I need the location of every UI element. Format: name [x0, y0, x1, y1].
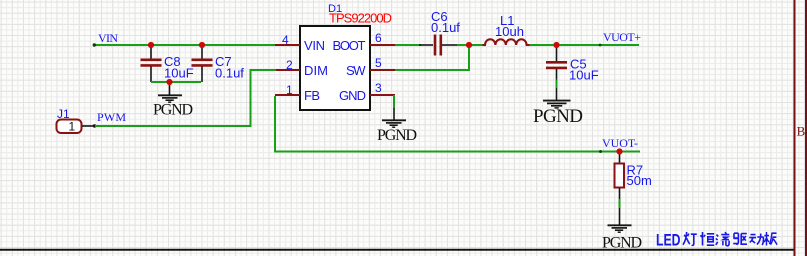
svg-text:10uF: 10uF — [164, 66, 194, 81]
anchor dot VUOT- label — [599, 150, 602, 153]
svg-text:50m: 50m — [627, 173, 652, 188]
wire pin3 GND stub — [393, 95, 395, 109]
pin 2 DIM — [275, 69, 300, 71]
anchor dot PWM pin end — [93, 124, 96, 127]
svg-text:VUOT-: VUOT- — [602, 136, 638, 150]
sheet border right inner — [794, 0, 796, 256]
svg-text:0.1uf: 0.1uf — [431, 20, 460, 35]
svg-text:2: 2 — [286, 58, 293, 72]
svg-text:B: B — [797, 123, 806, 138]
wire C6 to junction — [457, 44, 470, 46]
svg-text:LED: LED — [656, 232, 681, 250]
svg-text:VIN: VIN — [98, 31, 118, 45]
svg-text:6: 6 — [375, 31, 382, 45]
svg-text:GND: GND — [339, 88, 366, 103]
wire VIN net horizontal — [93, 44, 276, 46]
svg-text:5: 5 — [375, 56, 382, 70]
junction at caps ground stub — [166, 79, 172, 85]
sheet border bottom — [0, 249, 794, 251]
svg-text:1: 1 — [69, 120, 76, 134]
junction at R7 top — [616, 148, 622, 154]
svg-text:PWM: PWM — [97, 110, 126, 124]
op IC D1 body — [300, 26, 370, 110]
svg-text:0.1uf: 0.1uf — [215, 66, 244, 81]
inductor L1 — [483, 39, 530, 45]
wire stub C5 to ground — [556, 80, 558, 89]
junction at C7 top — [199, 42, 205, 48]
svg-text:VUOT+: VUOT+ — [603, 30, 641, 44]
svg-text:3: 3 — [375, 81, 382, 95]
net label anchor dot — [599, 44, 602, 47]
capacitor C6 — [419, 35, 457, 56]
pin 3 GND — [370, 94, 395, 96]
svg-text:FB: FB — [304, 88, 320, 103]
pin 5 SW — [370, 69, 395, 71]
svg-text:4: 4 — [282, 33, 289, 47]
sheet border right outer — [805, 0, 807, 256]
resistor R7 — [615, 152, 625, 200]
capacitor C8 — [141, 45, 162, 82]
svg-text:PGND: PGND — [153, 102, 193, 119]
title glyph qu — [733, 233, 747, 244]
wire BOOT to C6 — [395, 44, 421, 46]
title glyph liu — [716, 232, 729, 246]
svg-text:PGND: PGND — [377, 127, 417, 144]
wire L1 to output — [530, 44, 640, 46]
svg-text:SW: SW — [346, 63, 366, 78]
wire junction to L1 — [469, 44, 484, 46]
junction at C5 top — [553, 42, 559, 48]
capacitor C5 — [546, 45, 567, 80]
junction at C8 top — [148, 42, 154, 48]
svg-text:10uh: 10uh — [495, 24, 524, 39]
junction C6/SW/L1 — [466, 42, 472, 48]
title glyph deng — [683, 232, 697, 245]
wire cap bottoms — [151, 81, 201, 83]
title glyph dong — [749, 234, 763, 245]
wire stub R7 to ground — [619, 199, 621, 208]
wire PWM net — [95, 70, 276, 126]
ground PGND under C8/C7 — [158, 82, 182, 102]
wire FB net down and right — [275, 96, 640, 152]
ground PGND under pin 3 — [382, 108, 406, 127]
pin 1 FB — [275, 94, 300, 96]
svg-text:10uF: 10uF — [569, 68, 599, 83]
svg-text:BOOT: BOOT — [333, 38, 366, 53]
svg-text:TPS92200D: TPS92200D — [329, 11, 392, 26]
pin 4 VIN — [275, 44, 300, 46]
ground PGND under R7 — [608, 208, 632, 232]
svg-text:1: 1 — [286, 83, 293, 97]
pin 6 BOOT — [370, 44, 395, 46]
svg-text:DIM: DIM — [304, 63, 328, 78]
svg-text:VIN: VIN — [304, 38, 325, 53]
svg-text:PGND: PGND — [533, 106, 583, 127]
capacitor C7 — [192, 45, 213, 82]
wire SW net: down and left to pin 5 — [395, 45, 469, 70]
title glyph ban — [764, 232, 777, 246]
anchor dot VIN wire start — [93, 43, 96, 46]
ground PGND under C5 — [543, 88, 571, 108]
title glyph heng — [701, 232, 715, 246]
